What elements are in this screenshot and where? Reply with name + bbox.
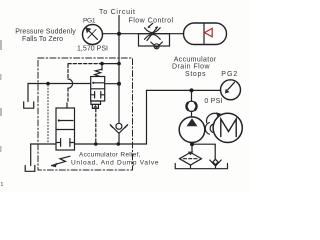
svg-text:Drain Flow: Drain Flow (172, 63, 210, 70)
svg-text:PG1: PG1 (83, 18, 96, 25)
svg-text:To Circuit: To Circuit (99, 9, 135, 16)
svg-text:Falls To Zero: Falls To Zero (22, 36, 63, 43)
svg-text:Unload, And Dump Valve: Unload, And Dump Valve (71, 160, 159, 167)
svg-text:Stops: Stops (185, 71, 206, 78)
svg-text:Pressure Suddenly: Pressure Suddenly (15, 29, 76, 36)
svg-text:PG2: PG2 (221, 71, 237, 78)
svg-text:0 PSI: 0 PSI (204, 98, 222, 105)
svg-text:Flow Control: Flow Control (129, 18, 174, 25)
svg-text:1: 1 (1, 182, 4, 188)
svg-text:1,570 PSI: 1,570 PSI (77, 45, 108, 52)
svg-text:Accumulator Relief,: Accumulator Relief, (79, 151, 141, 158)
